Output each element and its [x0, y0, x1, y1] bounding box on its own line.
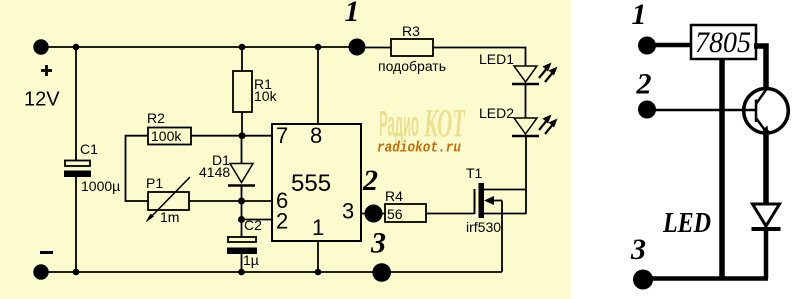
resistor R3	[391, 39, 433, 56]
capacitor C1	[64, 161, 91, 178]
node junction R1/R2/D1/pin7	[239, 132, 246, 139]
wire C1 branch upper	[75, 47, 77, 161]
node pin8 junction	[315, 44, 322, 51]
svg-text:2: 2	[276, 209, 288, 234]
transistor Q1 irf530	[475, 183, 527, 272]
svg-text:2: 2	[636, 68, 652, 101]
svg-text:100k: 100k	[151, 128, 182, 144]
watermark Радио КОТ	[379, 101, 466, 146]
op-amp U1 555 timer box	[272, 124, 361, 241]
wire base	[647, 109, 756, 111]
svg-text:3: 3	[630, 233, 646, 266]
LED1 arrows	[539, 63, 558, 83]
svg-text:Радио: Радио	[379, 103, 419, 144]
wire R2 left lead to P1 left lead	[126, 136, 149, 201]
svg-text:555: 555	[291, 170, 331, 197]
svg-text:1000µ: 1000µ	[81, 178, 120, 194]
diode D1	[228, 136, 255, 201]
svg-text:irf530: irf530	[466, 219, 501, 235]
wire dot1 to 7805	[647, 43, 691, 48]
wire junction to pin2	[242, 219, 273, 221]
terminal +	[41, 65, 52, 76]
svg-text:8: 8	[310, 123, 322, 148]
wire R1 top lead	[241, 47, 243, 71]
svg-text:3: 3	[370, 227, 386, 260]
wire C2 top lead	[241, 220, 243, 238]
node C2 ground junction	[238, 269, 245, 276]
svg-text:3: 3	[342, 199, 354, 224]
wire down to pin2 node	[241, 201, 243, 220]
terminal dot 2	[365, 205, 383, 223]
node pin1 junction	[315, 269, 322, 276]
node junction D1/P1/pin6	[238, 198, 245, 205]
svg-text:10k: 10k	[254, 88, 278, 104]
LED diode symbol	[752, 204, 781, 279]
terminal -	[40, 251, 53, 254]
svg-text:R4: R4	[385, 188, 403, 204]
svg-text:4148: 4148	[199, 164, 230, 180]
svg-text:1m: 1m	[160, 209, 179, 225]
svg-text:1: 1	[632, 0, 647, 31]
svg-text:C2: C2	[244, 217, 262, 233]
svg-text:P1: P1	[146, 175, 163, 191]
regulator 7805 box	[691, 25, 756, 59]
wire junction to pin7	[242, 135, 272, 137]
node junction pin2/C2	[238, 216, 245, 223]
LED2	[512, 118, 539, 214]
white panel background	[571, 0, 792, 299]
wire 7805 out to collector column	[754, 46, 766, 90]
wire 7805 ground pin	[719, 59, 725, 279]
transistor Q2	[744, 89, 789, 135]
resistor R2	[148, 128, 191, 145]
svg-text:LED: LED	[662, 207, 711, 239]
svg-text:LED2: LED2	[479, 105, 514, 121]
svg-text:1: 1	[312, 215, 324, 240]
wire C2 bottom lead	[241, 254, 243, 272]
svg-text:1: 1	[345, 0, 360, 28]
terminal dot 1	[638, 37, 656, 55]
svg-text:1µ: 1µ	[243, 252, 259, 268]
yellow schematic background	[0, 0, 571, 299]
svg-text:LED1: LED1	[479, 51, 514, 67]
wire bottom rail	[643, 276, 768, 281]
svg-text:T1: T1	[466, 165, 483, 181]
wire pin8 branch	[317, 47, 319, 124]
terminal dot minus	[33, 264, 48, 279]
svg-text:radiokot.ru: radiokot.ru	[377, 140, 461, 157]
terminal dot 3	[633, 270, 653, 290]
svg-text:12V: 12V	[24, 89, 60, 111]
terminal dot 3	[372, 263, 391, 282]
terminal dot 2	[638, 101, 656, 119]
wire R2 right lead	[191, 135, 242, 137]
svg-text:R3: R3	[402, 23, 420, 39]
wire pin3 to R4	[361, 213, 385, 215]
wire bottom rail	[41, 271, 502, 273]
P1 wiper arrow	[146, 177, 191, 223]
wire top rail	[41, 46, 357, 48]
svg-text:7805: 7805	[695, 26, 751, 59]
svg-text:7: 7	[276, 123, 288, 148]
wire R4 to gate	[426, 213, 475, 215]
LED1	[512, 66, 539, 118]
wire C1 branch lower	[75, 176, 77, 272]
node R1 top junction	[239, 44, 246, 51]
wire pin1 branch	[317, 241, 319, 272]
svg-text:2: 2	[362, 164, 378, 197]
capacitor C2	[227, 237, 257, 254]
svg-text:C1: C1	[80, 141, 98, 157]
potentiometer P1	[148, 192, 189, 210]
svg-text:подобрать: подобрать	[378, 58, 446, 74]
wire junction to pin6	[242, 200, 273, 202]
resistor R1	[233, 71, 252, 112]
svg-text:56: 56	[387, 206, 403, 222]
wire dot1 to R3	[357, 47, 391, 49]
resistor R4	[385, 204, 426, 222]
wire P1 right lead	[189, 200, 242, 202]
wire R1 bottom lead	[241, 112, 243, 136]
node C1 top junction	[73, 44, 80, 51]
node C1 bottom junction	[73, 269, 80, 276]
LED2 arrows	[539, 115, 558, 135]
svg-text:R2: R2	[147, 110, 165, 126]
wire R3 to LED column	[433, 48, 526, 67]
terminal dot 1	[349, 39, 366, 56]
wire emitter to LED	[763, 130, 769, 204]
terminal dot plus	[33, 39, 48, 54]
